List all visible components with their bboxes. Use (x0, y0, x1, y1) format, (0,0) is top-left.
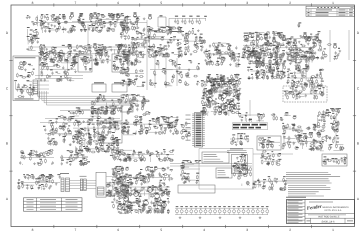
left panel header text (15, 56, 36, 59)
ribbon connector bundle B (80, 176, 87, 191)
cluster presence row a (19, 149, 54, 165)
ribbon connector bundle A (60, 173, 70, 191)
cluster right mid box A in (258, 137, 280, 148)
cluster pot area cluster (91, 94, 150, 115)
cluster reverb a (241, 31, 285, 59)
cluster input jacks (26, 15, 40, 50)
cluster fsw contents (323, 156, 347, 165)
relay box B (112, 54, 128, 72)
cluster ch2 stage c (98, 44, 131, 62)
svg-text:SA30_14-6: SA30_14-6 (322, 220, 336, 223)
cluster ch1 stage a (39, 15, 73, 34)
output chain box (178, 185, 215, 193)
dashed option box right (283, 86, 327, 102)
wire driver rails (112, 187, 170, 190)
svg-text:MUSICAL INSTRUMENTS: MUSICAL INSTRUMENTS (323, 206, 350, 209)
cluster right mid box B in (232, 156, 246, 172)
wire vertical trunk x147 (146, 20, 148, 90)
cluster speaker left sparse (296, 126, 311, 149)
wire four-line bus left (70, 181, 81, 189)
cluster above vintage b (271, 114, 284, 121)
cluster voice box lower (232, 165, 251, 186)
wire pair y75 (35, 76, 83, 79)
cluster left panel upper (16, 61, 34, 78)
cluster left of IC column (181, 121, 191, 141)
vintage modern dark label (233, 123, 268, 130)
wire ch2 signal bus (28, 46, 147, 48)
voice table box B (216, 168, 232, 178)
svg-text:8: 8 (32, 1, 34, 5)
cluster tube pair top right (305, 32, 320, 43)
notes text block upper (286, 173, 340, 184)
tube designator markers (69, 12, 337, 109)
cluster between relays (94, 53, 111, 66)
cluster lower mid a (120, 116, 179, 135)
opto box lower (98, 123, 122, 143)
cluster below voice box (180, 161, 201, 184)
cluster ch2 stage b (72, 44, 102, 62)
IC connector column (186, 113, 205, 148)
cluster mid right of tone (182, 29, 206, 56)
cluster reverb c (312, 41, 342, 60)
speaker glyph B (322, 135, 327, 141)
voice table box A (202, 152, 229, 163)
mid small box B (121, 105, 133, 112)
left panel footer text (15, 98, 34, 101)
wire ch1 signal bus (35, 21, 147, 23)
svg-text:3: 3 (246, 228, 248, 232)
voice component outer box (199, 149, 253, 190)
B+ filter capacitor chain (158, 16, 207, 28)
cluster sparse verticals (149, 60, 200, 86)
title block with Fender logo (287, 200, 355, 224)
cluster rev table under (298, 23, 302, 28)
wire voice feed A (170, 154, 293, 164)
cluster ch1 stage c (100, 13, 132, 32)
voice component parts (234, 154, 249, 176)
svg-text:4: 4 (203, 1, 205, 5)
mid small box A (121, 95, 133, 103)
svg-text:8: 8 (32, 228, 34, 232)
output rectifier chain (176, 207, 269, 219)
cluster inter-stage column (131, 17, 147, 57)
svg-text:3: 3 (246, 1, 248, 5)
wire voice feed B (170, 165, 252, 167)
cluster presence row b (60, 151, 90, 166)
svg-text:4: 4 (203, 228, 205, 232)
voice header text (227, 151, 247, 153)
wire vertical x88 (87, 24, 89, 52)
svg-text:B: B (6, 142, 8, 146)
cluster speaker mid b (313, 135, 345, 151)
cluster above vintage (238, 113, 264, 122)
cluster mid rows lower (111, 166, 173, 186)
revision table (306, 6, 355, 16)
wire bus into box (86, 181, 96, 189)
notes footer label (286, 196, 306, 199)
wire bus corner bundle (38, 91, 121, 105)
power transistor circles (118, 84, 235, 209)
wire right trunk x336 (335, 116, 337, 146)
cluster below bus row (60, 107, 117, 115)
wire sparse verticals mid (155, 58, 177, 88)
pot box B (112, 82, 127, 92)
svg-text:1: 1 (332, 1, 334, 5)
wire fx path (40, 119, 120, 123)
cluster x120 column (120, 17, 131, 40)
svg-text:2: 2 (289, 228, 291, 232)
relay box A (78, 55, 92, 72)
cluster left panel lower (14, 81, 35, 98)
right mid box B (231, 155, 247, 174)
svg-text:2: 2 (289, 1, 291, 5)
cluster right mid c (261, 150, 282, 166)
svg-text:7: 7 (75, 228, 77, 232)
cluster lower left a (43, 116, 74, 146)
notes text block lower (288, 186, 331, 197)
svg-text:6: 6 (117, 1, 119, 5)
cluster tone stack (147, 27, 182, 59)
bottom-left option table (24, 198, 83, 211)
cluster relay B contents (113, 56, 127, 71)
cluster mid x120 lower (119, 67, 145, 87)
left panel connector (33, 80, 49, 94)
cluster phase inverter (247, 51, 286, 80)
cluster speaker upper (313, 108, 341, 132)
wire vertical x250 (249, 100, 251, 116)
cluster right edge strip (282, 112, 303, 149)
cluster reverb b (285, 36, 317, 59)
svg-text:6: 6 (117, 228, 119, 232)
cluster pi right (286, 47, 314, 69)
svg-text:5: 5 (160, 1, 162, 5)
cluster ch1 stage b (71, 13, 102, 32)
left panel box (13, 56, 39, 101)
cluster speaker mid (302, 132, 325, 151)
cluster ch2 stage a (39, 45, 72, 63)
cluster mid left cluster (39, 62, 78, 81)
cluster row3 left (39, 52, 78, 64)
cluster relay A contents (79, 56, 91, 70)
cluster mid rows upper (110, 149, 174, 162)
right mid box A (257, 136, 281, 150)
cluster fx row (17, 174, 61, 190)
B+ label text (148, 30, 184, 32)
cluster chain right end (252, 177, 287, 191)
cluster bottom mid-left (106, 174, 132, 196)
wire right trunk x330 (330, 30, 349, 62)
cluster right mid a (230, 134, 249, 146)
footswitch box right (322, 154, 347, 166)
svg-text:1: 1 (332, 228, 334, 232)
rev pot label (230, 147, 243, 150)
cluster driver stage (111, 185, 170, 215)
svg-text:B: B (357, 142, 359, 146)
wire output chain rail bottom (175, 214, 268, 216)
cluster option contents (284, 86, 325, 100)
cluster lower left b (72, 116, 121, 153)
wire output chain rail top (175, 207, 268, 209)
cluster power amp dense (200, 74, 241, 116)
svg-text:7: 7 (75, 1, 77, 5)
connector box J1 (96, 172, 114, 197)
cluster mid x120 upper (119, 43, 145, 66)
cluster pre-driver (204, 42, 240, 67)
cluster bias (286, 68, 324, 88)
speaker glyph A (333, 125, 338, 132)
opto box upper (98, 108, 122, 121)
svg-text:EST'D. BY U.S.A.: EST'D. BY U.S.A. (325, 209, 343, 212)
svg-text:5: 5 (160, 228, 162, 232)
power amp label rows (208, 79, 237, 82)
pot box A (92, 82, 106, 92)
